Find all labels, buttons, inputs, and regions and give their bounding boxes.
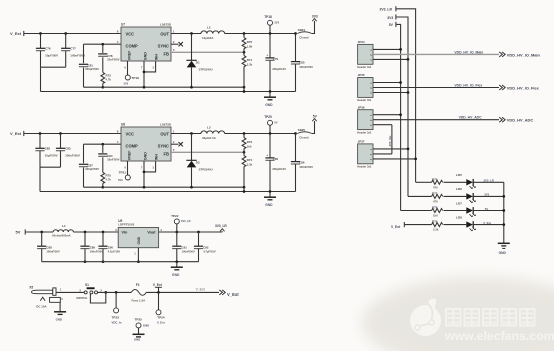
svg-text:5V: 5V <box>16 230 21 235</box>
LED LD8 <box>444 215 504 231</box>
wire rail join <box>243 186 246 189</box>
wire FB net (gray) <box>171 151 244 153</box>
svg-text:3V3_LR: 3V3_LR <box>484 179 494 183</box>
svg-text:C82: C82 <box>45 146 51 150</box>
svg-text:GND: GND <box>137 236 141 244</box>
svg-text:5: 5 <box>173 148 175 152</box>
wire OUT node <box>171 133 201 135</box>
svg-text:100nF/50V: 100nF/50V <box>299 65 313 69</box>
svg-text:3V3: 3V3 <box>274 20 279 24</box>
capacitor C89 <box>80 232 103 263</box>
svg-text:VREF: VREF <box>127 50 131 60</box>
svg-text:COMP: COMP <box>126 43 139 48</box>
svg-text:VDD_HV_IO_Main: VDD_HV_IO_Main <box>454 50 483 54</box>
svg-text:100nF/50V: 100nF/50V <box>65 153 80 157</box>
svg-text:GND: GND <box>499 251 507 255</box>
svg-text:V_Ext: V_Ext <box>10 131 22 136</box>
svg-text:R77: R77 <box>432 192 438 196</box>
svg-text:VCC: VCC <box>126 131 135 136</box>
svg-text:STPS340U: STPS340U <box>199 167 213 171</box>
svg-text:FB: FB <box>164 151 170 156</box>
svg-text:220pF/50V: 220pF/50V <box>85 67 99 71</box>
svg-text:1k0: 1k0 <box>433 214 438 218</box>
svg-text:JP36: JP36 <box>358 105 365 109</box>
wire VDD_HV_IO_Main (gray) <box>373 53 499 55</box>
resistor R74 divider bottom <box>242 152 253 187</box>
capacitor C91 <box>172 232 195 263</box>
wire INH pin tied to GND <box>144 61 156 72</box>
wire switch loop <box>90 292 105 303</box>
svg-text:4.7µF/16V: 4.7µF/16V <box>203 250 216 254</box>
net port 3V3_LR top <box>380 6 396 11</box>
port VDD_HV_ADC <box>499 117 533 122</box>
LED LD6 <box>444 187 504 203</box>
connector JP35 header <box>357 73 373 102</box>
svg-text:JP34: JP34 <box>358 40 365 44</box>
inductor L3 <box>201 126 296 140</box>
resistor R79 <box>432 220 443 232</box>
svg-text:JP37: JP37 <box>358 140 365 144</box>
svg-text:Header 3x1: Header 3x1 <box>357 65 372 69</box>
svg-text:GND: GND <box>265 203 273 207</box>
svg-text:3V3_LR: 3V3_LR <box>181 219 191 223</box>
op-amp regulator IC U7 <box>121 23 172 61</box>
svg-text:+: + <box>266 53 268 57</box>
inductor L2 <box>201 26 296 40</box>
fuse F1 <box>131 283 146 302</box>
svg-text:S1: S1 <box>85 283 89 287</box>
svg-text:VDC_In: VDC_In <box>112 320 122 324</box>
svg-text:330µF/10V: 330µF/10V <box>272 167 286 171</box>
power port 3V3 <box>312 14 318 33</box>
svg-text:X5: X5 <box>29 286 33 290</box>
svg-text:INH: INH <box>155 154 159 161</box>
svg-text:100nF/50V: 100nF/50V <box>182 250 196 254</box>
svg-text:GND: GND <box>134 338 140 342</box>
svg-text:5: 5 <box>173 48 175 52</box>
svg-text:OUT: OUT <box>160 31 169 36</box>
node COMP branch <box>101 43 104 46</box>
ferrite bead L4 <box>52 224 73 238</box>
wire VDD_HV_ADC <box>373 119 499 121</box>
svg-text:V_Ext: V_Ext <box>157 321 165 325</box>
resistor R77 <box>432 192 443 204</box>
node COMP branch <box>101 143 104 146</box>
wire 5V bus <box>396 24 400 210</box>
svg-text:220pF/50V: 220pF/50V <box>85 167 99 171</box>
capacitor C88 <box>37 232 60 262</box>
net port 5V top <box>389 22 396 27</box>
power port 5V <box>312 114 318 133</box>
svg-text:V_Ext: V_Ext <box>196 288 206 292</box>
wire JP34 pin3 to 3V3 bus <box>373 58 408 60</box>
svg-text:LD5: LD5 <box>456 173 462 177</box>
svg-text:33µH/1.5A: 33µH/1.5A <box>202 136 217 140</box>
svg-text:U8: U8 <box>121 123 125 127</box>
ground symbol X5 <box>54 302 66 321</box>
svg-text:22nF/50V: 22nF/50V <box>107 158 119 162</box>
capacitor C86 output <box>291 132 313 191</box>
capacitor C81 <box>79 63 99 71</box>
switch S1 <box>76 283 102 300</box>
svg-text:SYNC: SYNC <box>158 44 169 49</box>
svg-text:3V3: 3V3 <box>124 81 129 85</box>
svg-text:JP35: JP35 <box>358 73 365 77</box>
wire VDD_HV_IO_Flex <box>373 87 499 89</box>
svg-text:L5973D: L5973D <box>160 123 172 127</box>
wire local ground rail upper <box>84 186 245 188</box>
svg-text:LD7: LD7 <box>456 201 462 205</box>
svg-text:VDD_HV_IO_Flex: VDD_HV_IO_Flex <box>507 85 540 90</box>
svg-text:Header 3x1: Header 3x1 <box>357 130 372 134</box>
capacitor C90 <box>98 232 120 263</box>
svg-text:SB24: SB24 <box>298 28 306 32</box>
pin numbers U8 <box>117 129 175 169</box>
svg-text:8: 8 <box>117 29 119 33</box>
op-amp regulator IC U8 <box>121 123 172 161</box>
svg-text:3.3k: 3.3k <box>247 62 253 66</box>
LED LD5 <box>444 173 504 189</box>
port VDD_HV_IO_Flex <box>499 85 539 90</box>
svg-text:LD6: LD6 <box>456 187 462 191</box>
wire COMP network <box>84 43 122 45</box>
svg-text:22nF/50V: 22nF/50V <box>107 58 119 62</box>
no-connect X on SYNC pin 2 <box>171 143 179 145</box>
ground symbol converter <box>264 192 276 208</box>
svg-text:R76: R76 <box>432 177 438 181</box>
net V_Ext input port (U7) <box>10 31 24 36</box>
svg-text:100nF/50V: 100nF/50V <box>70 53 85 57</box>
svg-text:GND: GND <box>144 52 148 60</box>
wire ground rail lower <box>41 91 296 93</box>
svg-text:1: 1 <box>173 29 175 33</box>
capacitor C84 <box>98 154 119 173</box>
wire fuse to port <box>146 291 219 293</box>
wire JP36 pin3 to select link <box>373 124 392 126</box>
wire U9 GND pin <box>137 248 139 262</box>
svg-text:GND: GND <box>172 273 180 277</box>
ground symbol converter <box>264 92 276 108</box>
svg-text:4.7k: 4.7k <box>106 177 112 181</box>
svg-text:TP24: TP24 <box>157 316 165 320</box>
svg-text:3V3: 3V3 <box>118 178 123 182</box>
capacitor C77 <box>61 32 85 67</box>
svg-text:1k0: 1k0 <box>247 144 252 148</box>
svg-text:FB: FB <box>164 51 170 56</box>
wire INH pin tied to GND <box>144 161 156 172</box>
svg-text:SYNC: SYNC <box>158 144 169 149</box>
resistor R73 divider top <box>242 132 252 154</box>
svg-text:100nF/50V: 100nF/50V <box>90 250 104 254</box>
no-connect X on SYNC pin 2 <box>171 43 179 45</box>
svg-text:L3: L3 <box>207 126 211 130</box>
svg-text:Vin: Vin <box>122 231 129 235</box>
net V_Ext port LED row4 <box>391 222 432 229</box>
svg-text:5V: 5V <box>485 207 489 211</box>
resistor R76 <box>432 177 443 189</box>
svg-text:L5973D: L5973D <box>160 23 172 27</box>
svg-text:TP25: TP25 <box>135 317 143 321</box>
svg-text:3V3_LR: 3V3_LR <box>215 224 227 228</box>
net V_Ext input port (U8) <box>10 131 24 136</box>
test point TP19 on VREF <box>124 61 140 85</box>
solder bridge SB25 <box>297 128 312 140</box>
svg-text:INH: INH <box>155 54 159 61</box>
svg-text:TP19: TP19 <box>132 76 140 80</box>
svg-text:3V3_Sel: 3V3_Sel <box>388 136 392 147</box>
svg-text:100nF/50V: 100nF/50V <box>299 165 313 169</box>
svg-text:C77: C77 <box>70 46 76 50</box>
ground symbol LDO <box>171 262 183 278</box>
svg-text:330µF/10V: 330µF/10V <box>272 67 286 71</box>
svg-text:4: 4 <box>117 140 119 144</box>
test point TP18 on output <box>264 15 279 34</box>
svg-text:www.elecfans.com: www.elecfans.com <box>444 329 554 343</box>
wire GND pin to rail <box>143 161 145 187</box>
wire ground rail lower <box>40 191 296 193</box>
svg-text:470: 470 <box>433 200 438 204</box>
capacitor C80 output <box>291 32 313 91</box>
svg-text:3V3: 3V3 <box>312 14 318 18</box>
wire LDO ground rail <box>42 261 199 263</box>
svg-text:COMP: COMP <box>126 143 139 148</box>
resistor R75 <box>101 172 111 188</box>
test point TP21 on VREF <box>118 161 130 182</box>
svg-text:8: 8 <box>117 129 119 133</box>
svg-text:C80: C80 <box>299 60 305 64</box>
capacitor C87 <box>79 163 99 171</box>
svg-text:R79: R79 <box>432 220 438 224</box>
svg-text:VDD_HV_IO_Flex: VDD_HV_IO_Flex <box>454 83 482 87</box>
capacitor C78 <box>98 54 119 73</box>
svg-text:4: 4 <box>117 40 119 44</box>
watermark background tint <box>362 277 554 351</box>
svg-text:C86: C86 <box>299 160 305 164</box>
svg-text:Closed: Closed <box>299 136 309 140</box>
svg-text:4.7k: 4.7k <box>106 77 112 81</box>
wire LED cathode bus <box>503 182 505 243</box>
svg-text:OUT: OUT <box>160 131 169 136</box>
wire JP35 pin3 to 3V3 bus <box>373 92 408 94</box>
capacitor C92 <box>194 232 216 262</box>
svg-text:TP23: TP23 <box>112 315 120 319</box>
wire OUT node <box>171 33 201 35</box>
wire local ground rail upper <box>84 86 245 88</box>
svg-text:VDD_HV_IO_Main: VDD_HV_IO_Main <box>507 52 541 57</box>
svg-text:Header 3x1: Header 3x1 <box>357 98 372 102</box>
ground symbol LEDs <box>498 243 510 255</box>
svg-text:10µH/2A: 10µH/2A <box>202 36 214 40</box>
svg-text:V_Ext: V_Ext <box>227 292 239 297</box>
svg-text:10µF/50V: 10µF/50V <box>45 53 58 57</box>
wire JP35 pin1 to 5V bus <box>373 82 401 84</box>
watermark logo circle <box>410 305 441 336</box>
capacitor C85 electrolytic <box>265 132 286 193</box>
wire JP36 pin1 to 5V bus <box>373 114 401 116</box>
svg-text:2: 2 <box>173 40 175 44</box>
svg-text:Fuse 1.5A: Fuse 1.5A <box>132 298 147 302</box>
net port 3V3 top <box>387 14 396 19</box>
svg-text:V_Ext: V_Ext <box>10 31 22 36</box>
svg-text:STPS340U: STPS340U <box>199 67 213 71</box>
net label V_Ext junction <box>153 283 163 294</box>
svg-text:+: + <box>266 153 268 157</box>
svg-text:Closed: Closed <box>299 36 309 40</box>
svg-text:TP20: TP20 <box>264 115 272 119</box>
capacitor C79 electrolytic <box>265 32 286 93</box>
resistor R72 <box>101 72 111 88</box>
wire V_Ext to VCC pin 8 <box>24 33 121 35</box>
svg-text:LDFPT52V3: LDFPT52V3 <box>118 222 134 226</box>
wire GND pin to rail <box>143 61 145 87</box>
svg-text:L4: L4 <box>62 224 66 228</box>
test point TP23 <box>112 292 122 324</box>
svg-text:LD8: LD8 <box>456 215 462 219</box>
svg-text:D1: D1 <box>196 60 200 64</box>
svg-text:GND: GND <box>56 317 62 321</box>
resistor R71 divider bottom <box>242 52 253 87</box>
wire JP37 pin3 to 3V3_LR bus <box>373 158 416 160</box>
svg-text:60ohm/500mA: 60ohm/500mA <box>52 234 70 238</box>
svg-text:L2: L2 <box>207 26 211 30</box>
svg-text:1.8k: 1.8k <box>247 44 253 48</box>
svg-text:10µF/50V: 10µF/50V <box>45 153 58 157</box>
LDO regulator U9 <box>118 219 158 248</box>
capacitor C76 <box>36 32 58 67</box>
svg-text:V_Ext: V_Ext <box>391 225 401 229</box>
test point TP22 <box>171 214 191 232</box>
capacitor C82 <box>35 132 57 167</box>
wire FB net (gray) <box>171 51 244 53</box>
pin numbers U7 <box>117 29 175 69</box>
resistor R78 <box>432 206 443 218</box>
svg-text:100nF/50V: 100nF/50V <box>46 250 60 254</box>
svg-text:F1: F1 <box>136 283 140 287</box>
svg-text:TP22: TP22 <box>171 214 179 218</box>
test point TP24 <box>156 292 165 324</box>
svg-text:3V3: 3V3 <box>387 16 393 20</box>
svg-text:5V: 5V <box>274 120 277 124</box>
diode D2 schottky <box>186 134 212 189</box>
wire 3V3 bus <box>396 17 408 196</box>
wire 3V3_Sel vertical link <box>388 125 392 154</box>
test point TP20 on output <box>264 115 278 134</box>
svg-text:SB25: SB25 <box>298 128 306 132</box>
connector JP34 header <box>357 40 373 69</box>
port VDD_HV_IO_Main <box>499 52 540 57</box>
svg-text:GND: GND <box>265 103 273 107</box>
pin numbers U9 <box>115 228 162 256</box>
watermark chinese text block <box>446 309 461 326</box>
wire input caps ground drop <box>41 66 66 68</box>
test point TP25 <box>133 317 150 341</box>
wire JP37 pin1 to 3V3 bus <box>373 148 408 150</box>
wire rail join <box>243 86 246 89</box>
wire 5V bus to LED row3 <box>401 210 432 212</box>
svg-text:C88: C88 <box>46 245 52 249</box>
svg-text:C91: C91 <box>182 245 188 249</box>
svg-text:C89: C89 <box>90 245 96 249</box>
svg-text:VDD_HV_ADC: VDD_HV_ADC <box>459 116 483 120</box>
wire switch to fuse <box>98 291 132 293</box>
svg-text:R78: R78 <box>432 206 438 210</box>
connector JP36 header <box>357 105 373 134</box>
connector JP37 header <box>357 140 373 169</box>
wire JP37 pin2 select link <box>373 153 392 155</box>
svg-text:Vout: Vout <box>147 231 156 235</box>
wire jack to switch <box>56 291 84 293</box>
svg-text:C76: C76 <box>45 46 51 50</box>
svg-text:4.7µF/16V: 4.7µF/16V <box>108 250 121 254</box>
svg-text:C85: C85 <box>273 157 279 161</box>
wire V_Ext to VCC pin 8 <box>24 133 121 135</box>
svg-text:VCC: VCC <box>126 31 135 36</box>
LED LD7 <box>444 201 504 217</box>
svg-text:C92: C92 <box>203 245 209 249</box>
svg-text:2: 2 <box>173 140 175 144</box>
svg-text:V_Ext: V_Ext <box>153 283 163 287</box>
net 5V input port LDO <box>16 229 26 234</box>
capacitor C83 <box>56 132 80 167</box>
svg-text:SWITCH: SWITCH <box>76 296 87 300</box>
resistor R70 divider top <box>242 32 253 54</box>
svg-text:C83: C83 <box>65 146 71 150</box>
svg-text:GND: GND <box>144 152 148 160</box>
svg-text:VREF: VREF <box>127 150 131 160</box>
svg-text:TP21: TP21 <box>119 170 127 174</box>
svg-text:C90: C90 <box>108 245 114 249</box>
svg-text:V_Ext: V_Ext <box>483 221 491 225</box>
svg-text:C79: C79 <box>273 57 279 61</box>
power port 3V3_LR <box>215 224 227 232</box>
wire COMP network <box>84 143 122 145</box>
svg-text:2.2k: 2.2k <box>433 228 439 232</box>
svg-text:1: 1 <box>173 129 175 133</box>
solder bridge SB24 <box>297 28 312 40</box>
svg-text:3V3_LR: 3V3_LR <box>380 8 393 12</box>
svg-text:DC 10A: DC 10A <box>36 304 47 308</box>
wire 3V3_LR bus <box>396 9 415 183</box>
svg-text:5V: 5V <box>389 23 394 27</box>
wire 3V3_LR bus to LED row1 <box>416 181 432 183</box>
svg-text:3V3: 3V3 <box>484 193 489 197</box>
svg-text:U7: U7 <box>121 23 125 27</box>
svg-text:470: 470 <box>433 185 438 189</box>
svg-text:D2: D2 <box>196 160 200 164</box>
wire input caps ground drop <box>40 166 61 168</box>
svg-text:GND: GND <box>143 323 149 327</box>
svg-text:VDD_HV_ADC: VDD_HV_ADC <box>507 118 534 123</box>
wire ferrite to Vin <box>73 231 118 233</box>
svg-text:3.3k: 3.3k <box>247 162 253 166</box>
svg-text:TP18: TP18 <box>264 15 272 19</box>
wire 5V to ferrite <box>26 231 54 233</box>
wire 3V3 bus to LED row2 <box>408 195 432 197</box>
diode D1 schottky <box>186 34 212 89</box>
port V_Ext output <box>219 290 239 297</box>
connector X5 DC jack <box>29 286 63 309</box>
svg-text:Header 3x1: Header 3x1 <box>357 165 372 169</box>
wire Vout to 3V3_LR port <box>159 231 223 233</box>
wire JP34 pin1 to 5V bus <box>373 48 401 50</box>
